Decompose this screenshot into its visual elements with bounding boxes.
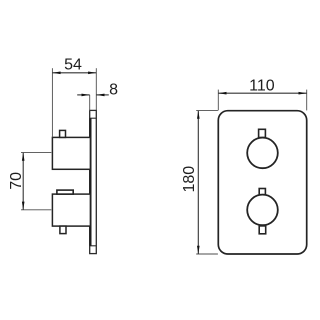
dimension 110 line xyxy=(218,92,306,94)
nub below lower valve body xyxy=(60,226,66,234)
dimension 180 extension line bottom xyxy=(196,253,218,255)
dimension 70 line xyxy=(22,153,24,210)
upper knob index notch xyxy=(259,129,266,137)
dimension 54 line xyxy=(52,72,96,74)
upper valve body (side view) xyxy=(52,137,90,169)
dimension 110 arrowhead right xyxy=(299,92,307,95)
dimension 180 extension line top xyxy=(196,110,218,112)
lower knob circle xyxy=(247,195,278,226)
button nub on upper valve body xyxy=(60,130,66,137)
dimension 110 extension line right xyxy=(306,90,308,111)
svg-text:70: 70 xyxy=(8,172,25,190)
dimension 8 extension line xyxy=(89,95,91,111)
dimension 8 leader line right xyxy=(96,94,109,96)
upper knob circle xyxy=(247,138,278,169)
dimension 180 arrowhead bottom xyxy=(197,246,200,254)
dimension 70 extension line top xyxy=(21,152,51,154)
dimension 54 extension line left xyxy=(51,68,53,137)
face plate front view xyxy=(218,111,306,254)
dimension 180 line xyxy=(197,111,199,254)
dimension 8 arrowhead left xyxy=(82,94,90,97)
dimension 180 arrowhead top xyxy=(197,111,200,119)
dimension 54 arrowhead right xyxy=(88,72,96,75)
dimension 54 extension line right xyxy=(95,68,97,110)
dimension 70 arrowhead bottom xyxy=(22,202,25,210)
dimension 110 arrowhead left xyxy=(218,92,226,95)
lower knob index notch top xyxy=(259,189,265,195)
dimension 8 leader line left xyxy=(77,94,90,96)
wall plate side view outline xyxy=(90,110,97,253)
dimension 70 extension line bottom xyxy=(21,209,51,211)
plate corner tangent line bottom xyxy=(90,245,97,247)
lower knob lever notch bottom xyxy=(259,226,266,234)
plate corner tangent line top xyxy=(90,117,97,119)
svg-text:8: 8 xyxy=(109,81,118,98)
dimension 8 arrowhead right xyxy=(96,94,104,97)
cartridge cap on lower valve body xyxy=(57,190,73,194)
lower valve body (side view) xyxy=(52,194,90,226)
dimension 110 extension line left xyxy=(217,90,219,111)
dimension 54 arrowhead left xyxy=(52,72,60,75)
plate front face thick edge xyxy=(89,118,91,246)
svg-text:54: 54 xyxy=(64,57,82,74)
dimension 70 arrowhead top xyxy=(22,153,25,161)
svg-text:110: 110 xyxy=(249,78,275,95)
svg-text:180: 180 xyxy=(181,166,198,193)
